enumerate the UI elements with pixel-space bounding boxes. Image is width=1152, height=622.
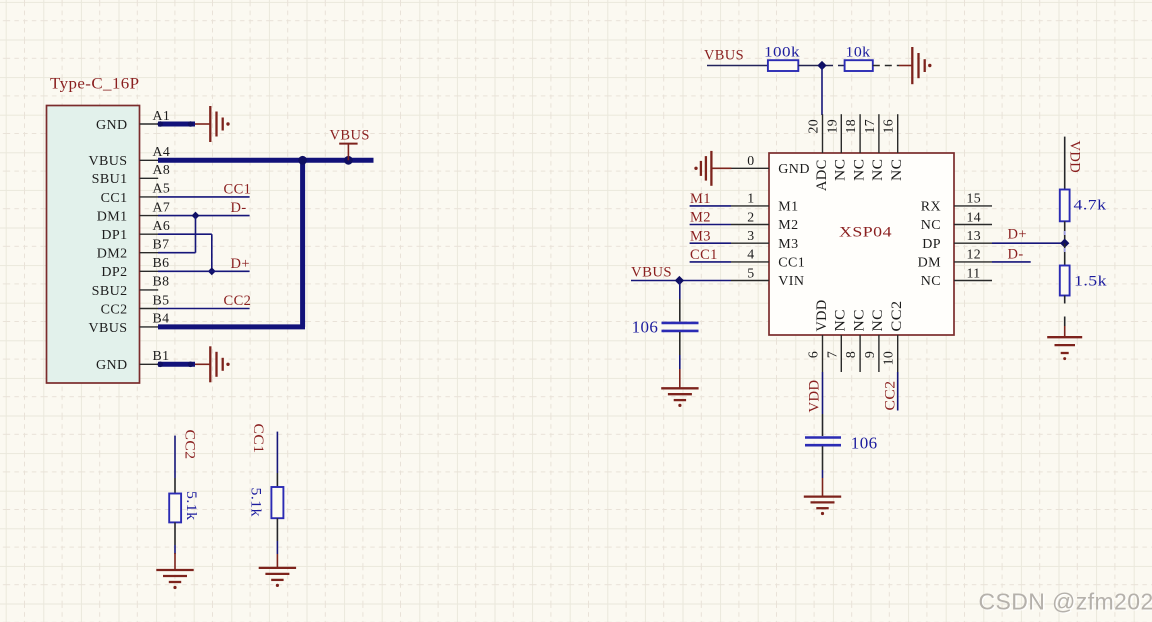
wire GND A1 thick xyxy=(158,122,195,127)
IC pin 12 DM xyxy=(918,247,992,271)
wire A6 stub xyxy=(158,233,212,235)
wire VBUS vertical thick xyxy=(300,160,305,327)
wire junction to 10k dashed xyxy=(826,65,845,67)
svg-text:GND: GND xyxy=(96,358,128,373)
svg-text:CC1: CC1 xyxy=(101,191,128,206)
resistor R_CC2 5.1k xyxy=(169,494,181,523)
wire CC1 A5 xyxy=(158,196,250,198)
svg-text:M2: M2 xyxy=(690,210,711,226)
svg-text:4.7k: 4.7k xyxy=(1074,198,1107,214)
svg-text:VBUS: VBUS xyxy=(631,265,672,281)
resistor R 10k xyxy=(845,60,873,71)
connector pin B4 VBUS xyxy=(89,311,170,336)
svg-text:VBUS: VBUS xyxy=(89,321,128,336)
svg-text:VBUS: VBUS xyxy=(330,128,370,144)
connector J1 Type-C_16P body xyxy=(47,106,140,384)
wire A1 ground lead xyxy=(195,123,210,125)
connector pin B6 DP2 xyxy=(101,255,169,280)
svg-text:A5: A5 xyxy=(153,181,171,196)
svg-text:VDD: VDD xyxy=(814,300,830,332)
wire 4.7k to junction xyxy=(1064,221,1066,243)
IC pin 5 VIN xyxy=(731,265,804,289)
svg-text:NC: NC xyxy=(921,274,941,289)
wire pin 0 to ground xyxy=(711,167,731,169)
svg-text:DP: DP xyxy=(922,237,941,252)
capacitor C_VDD 106 xyxy=(805,438,841,446)
svg-text:20: 20 xyxy=(806,119,821,134)
IC pin 1 M1 xyxy=(731,191,799,215)
svg-text:10k: 10k xyxy=(846,45,871,61)
svg-text:M3: M3 xyxy=(778,237,798,252)
wire D+ B6 xyxy=(158,270,250,272)
wire 100k to junction xyxy=(798,65,822,67)
svg-text:DP2: DP2 xyxy=(101,265,127,280)
ground symbol CC1 xyxy=(259,568,296,587)
svg-text:NC: NC xyxy=(833,159,849,182)
svg-text:NC: NC xyxy=(851,309,867,332)
svg-text:9: 9 xyxy=(862,351,877,358)
svg-text:19: 19 xyxy=(824,119,839,134)
junction dot B1 left xyxy=(158,362,164,368)
connector pin A1 GND xyxy=(96,108,170,133)
IC pin 6 VDD lead xyxy=(806,300,830,373)
svg-text:CC2: CC2 xyxy=(101,302,128,317)
wire B1 ground lead xyxy=(195,363,210,365)
IC pin 17 NC lead xyxy=(862,114,886,181)
svg-text:A4: A4 xyxy=(153,144,171,159)
svg-text:D-: D- xyxy=(231,200,247,216)
wire VIN cap upper xyxy=(679,281,681,300)
IC pin 9 NC lead xyxy=(862,309,886,372)
svg-text:13: 13 xyxy=(967,228,982,243)
wire ground lead top right xyxy=(899,65,912,67)
connector pin A6 DP1 xyxy=(101,218,170,243)
svg-text:M1: M1 xyxy=(690,191,711,207)
wire GND B1 thick xyxy=(158,362,195,367)
svg-text:Type-C_16P: Type-C_16P xyxy=(50,76,140,93)
resistor R 4.7k xyxy=(1060,190,1070,222)
svg-text:0: 0 xyxy=(747,153,754,168)
svg-text:CC2: CC2 xyxy=(182,430,198,460)
svg-text:SBU2: SBU2 xyxy=(92,284,128,299)
svg-text:A6: A6 xyxy=(153,218,171,233)
wire divider ground lead xyxy=(1064,326,1066,337)
ground symbol B1 xyxy=(210,346,229,382)
wire M2 stub xyxy=(690,224,731,226)
svg-text:B8: B8 xyxy=(153,274,170,289)
resistor R 1.5k xyxy=(1060,266,1070,296)
power port VBUS bar xyxy=(339,144,357,161)
ground symbol pin 0 xyxy=(694,151,711,186)
IC pin 2 M2 xyxy=(731,209,799,233)
junction VBUS branch xyxy=(298,156,307,165)
ground symbol C_VIN xyxy=(661,388,698,407)
wire B7 stub xyxy=(158,252,196,254)
resistor R_CC1 5.1k xyxy=(271,487,283,518)
svg-text:6: 6 xyxy=(806,351,821,358)
svg-text:CC1: CC1 xyxy=(690,247,718,263)
wire VBUS B4 thick horizontal xyxy=(158,324,305,329)
svg-text:5.1k: 5.1k xyxy=(183,491,199,521)
connector pin A7 DM1 xyxy=(97,199,170,224)
wire junction to ADC pin xyxy=(821,66,823,116)
svg-text:B4: B4 xyxy=(153,311,170,326)
wire VDD pin6 down xyxy=(822,372,824,414)
wire junction to 1.5k dashed xyxy=(1064,243,1066,265)
wire VBUS A4 thick horizontal xyxy=(158,158,374,163)
wire A6 to B6 vertical xyxy=(211,234,213,271)
svg-text:14: 14 xyxy=(967,209,982,224)
svg-text:M2: M2 xyxy=(778,218,798,233)
connector pin A8 SBU1 xyxy=(92,162,171,187)
wire CC2 resistor top xyxy=(174,436,176,478)
svg-text:B7: B7 xyxy=(153,237,170,252)
wire D+ pin13 xyxy=(992,242,1065,244)
svg-text:16: 16 xyxy=(881,119,896,134)
svg-text:DM: DM xyxy=(918,256,942,271)
wire VDD cap lower xyxy=(822,446,824,470)
svg-text:ADC: ADC xyxy=(814,159,830,191)
svg-text:2: 2 xyxy=(747,209,754,224)
svg-text:17: 17 xyxy=(862,119,877,134)
junction divider xyxy=(1060,239,1069,248)
svg-text:100k: 100k xyxy=(764,45,800,61)
svg-text:A7: A7 xyxy=(153,199,171,214)
svg-text:GND: GND xyxy=(96,118,128,133)
wire A7 to B7 vertical xyxy=(195,216,197,253)
svg-text:DM1: DM1 xyxy=(97,210,128,225)
wire M3 stub xyxy=(690,242,731,244)
wire CC1 stub xyxy=(690,261,731,263)
svg-text:CC2: CC2 xyxy=(882,381,898,411)
svg-text:A8: A8 xyxy=(153,162,171,177)
connector pin B8 SBU2 xyxy=(92,274,170,299)
svg-text:SBU1: SBU1 xyxy=(92,172,128,187)
connector pin A4 VBUS xyxy=(89,144,171,169)
connector pin B5 CC2 xyxy=(101,292,170,317)
ground symbol A1 xyxy=(210,106,229,142)
svg-text:NC: NC xyxy=(889,159,905,182)
svg-text:3: 3 xyxy=(747,228,754,243)
IC pin 3 M3 xyxy=(731,228,799,252)
ground symbol divider xyxy=(1047,337,1082,360)
wire CC1 resistor bottom xyxy=(276,518,278,541)
svg-text:NC: NC xyxy=(870,309,886,332)
svg-text:5.1k: 5.1k xyxy=(248,488,264,518)
junction VBUS power stem xyxy=(344,156,353,165)
svg-text:NC: NC xyxy=(870,159,886,182)
svg-text:VBUS: VBUS xyxy=(704,48,744,64)
IC pin 7 NC lead xyxy=(824,309,848,372)
wire D- A7 xyxy=(158,215,250,217)
IC pin 16 NC lead xyxy=(881,114,905,181)
ground symbol C_VDD xyxy=(804,497,841,515)
svg-text:M3: M3 xyxy=(690,228,711,244)
junction dot A1 right xyxy=(188,121,194,127)
svg-text:1: 1 xyxy=(747,191,754,206)
svg-text:15: 15 xyxy=(967,191,982,206)
svg-text:8: 8 xyxy=(843,351,858,358)
wire VBUS to VIN xyxy=(631,280,731,282)
svg-text:NC: NC xyxy=(921,218,941,233)
wire D- pin12 xyxy=(992,261,1031,263)
wire CC2 ground lead xyxy=(174,553,176,570)
svg-text:M1: M1 xyxy=(778,200,798,215)
junction B6 branch xyxy=(208,267,216,275)
wire CC1 resistor top xyxy=(276,432,278,473)
svg-text:11: 11 xyxy=(967,265,981,280)
svg-text:D+: D+ xyxy=(231,256,250,272)
wire CC1 ground lead xyxy=(276,554,278,568)
svg-text:5: 5 xyxy=(747,265,754,280)
svg-text:18: 18 xyxy=(843,119,858,134)
resistor R 100k xyxy=(768,60,798,71)
wire CC2 B5 xyxy=(158,308,250,310)
wire VIN cap lower xyxy=(679,332,681,355)
IC pin 4 CC1 xyxy=(731,247,805,271)
junction dot B1 right xyxy=(188,362,194,368)
wire VBUS to 100k xyxy=(707,65,768,67)
svg-text:CC1: CC1 xyxy=(778,256,805,271)
svg-text:CC2: CC2 xyxy=(224,293,252,309)
svg-text:B5: B5 xyxy=(153,292,170,307)
wire 1.5k to ground dashed xyxy=(1064,296,1066,304)
svg-text:GND: GND xyxy=(778,162,810,177)
wire M1 stub xyxy=(690,205,731,207)
junction A7 branch xyxy=(192,212,200,220)
svg-text:4: 4 xyxy=(747,247,754,262)
IC pin 8 NC lead xyxy=(843,309,867,372)
svg-text:12: 12 xyxy=(967,247,982,262)
connector pin A5 CC1 xyxy=(101,181,171,206)
svg-text:CC1: CC1 xyxy=(250,424,266,454)
svg-text:VDD: VDD xyxy=(1067,141,1083,174)
IC pin 10 CC2 lead xyxy=(881,301,905,373)
svg-text:NC: NC xyxy=(851,159,867,182)
svg-text:DM2: DM2 xyxy=(97,247,128,262)
IC pin 0 GND xyxy=(731,153,810,177)
svg-text:10: 10 xyxy=(881,351,896,366)
svg-text:VDD: VDD xyxy=(807,380,823,413)
svg-text:NC: NC xyxy=(833,309,849,332)
svg-text:DP1: DP1 xyxy=(101,228,127,243)
svg-text:VIN: VIN xyxy=(778,274,804,289)
junction dot A1 left xyxy=(158,121,164,127)
svg-text:A1: A1 xyxy=(153,108,171,123)
svg-text:XSP04: XSP04 xyxy=(839,225,892,241)
connector pin B1 GND xyxy=(96,348,169,373)
svg-text:7: 7 xyxy=(824,351,839,358)
svg-text:106: 106 xyxy=(632,318,659,337)
svg-text:CSDN @zfm2024: CSDN @zfm2024 xyxy=(979,589,1152,615)
capacitor C_VIN 106 xyxy=(662,323,699,331)
svg-text:B6: B6 xyxy=(153,255,170,270)
ground symbol top right xyxy=(912,47,931,84)
ground symbol CC2 xyxy=(156,570,193,589)
wire VDD down to 4.7k xyxy=(1064,137,1066,190)
junction VIN cap branch xyxy=(675,276,684,285)
svg-text:B1: B1 xyxy=(153,348,170,363)
IC pin 19 NC lead xyxy=(824,114,848,181)
svg-text:D+: D+ xyxy=(1008,227,1027,243)
svg-text:D-: D- xyxy=(1008,247,1024,263)
IC pin 13 DP xyxy=(922,228,992,252)
wire CC2 resistor bottom xyxy=(174,522,176,545)
svg-text:CC2: CC2 xyxy=(889,301,905,332)
wire CC2 pin10 stub xyxy=(897,372,899,411)
svg-text:1.5k: 1.5k xyxy=(1074,274,1107,290)
IC pin 18 NC lead xyxy=(843,114,867,181)
IC pin 11 NC xyxy=(921,265,992,289)
IC pin 15 RX xyxy=(921,191,992,215)
wire 10k to ground dashed xyxy=(873,65,899,67)
svg-text:VBUS: VBUS xyxy=(89,154,128,169)
svg-text:CC1: CC1 xyxy=(224,182,252,198)
junction ADC divider xyxy=(817,61,826,70)
IC pin 20 ADC lead xyxy=(806,114,830,191)
svg-text:RX: RX xyxy=(921,200,941,215)
IC U1 XSP04 body xyxy=(769,153,954,335)
IC pin 14 NC xyxy=(921,209,992,233)
svg-text:106: 106 xyxy=(851,434,878,453)
connector pin B7 DM2 xyxy=(97,237,170,262)
